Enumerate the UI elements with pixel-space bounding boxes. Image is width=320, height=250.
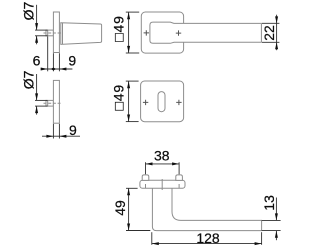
extension line 49 top	[126, 187, 138, 189]
dimension line 49 vertical	[128, 81, 130, 121]
extension line 9 left	[52, 124, 54, 139]
cross mark spindle	[176, 30, 181, 35]
svg-text:13: 13	[261, 195, 277, 211]
extension line 49 top	[126, 80, 139, 82]
arrow 13 down	[275, 213, 278, 220]
extension line 49 top	[126, 11, 139, 13]
keyhole slot	[158, 92, 165, 112]
wire dashed centerline of spindle	[44, 32, 62, 34]
rose plate top view	[140, 180, 185, 188]
arrow 22 down	[275, 16, 278, 23]
extension line 38 right	[178, 162, 180, 174]
right screw hole tick	[178, 184, 180, 188]
square rose front	[141, 12, 183, 53]
screw head/shaft boundary	[47, 30, 49, 36]
extension line Ø7 bottom	[35, 35, 48, 37]
dimension line 13 lower	[275, 231, 277, 241]
extension line Ø7 top	[35, 29, 48, 31]
extension line 6/9 middle	[52, 53, 54, 71]
rose plate side view	[53, 12, 59, 53]
arrow 9 pointing left	[59, 135, 66, 138]
svg-text:□49: □49	[110, 15, 126, 41]
arrow Ø7 up	[35, 36, 38, 43]
dimension line 128	[152, 243, 262, 245]
screw head side view	[46, 100, 53, 106]
extension line 6 left	[47, 36, 49, 71]
extension line Ø7 top	[35, 99, 48, 101]
grip base inner edge	[62, 23, 64, 44]
extension line 49 bottom	[126, 52, 139, 54]
arrow Ø7 down	[35, 93, 38, 100]
dimension line Ø7 lower	[36, 106, 38, 115]
arrow 6 pointing right	[41, 68, 48, 71]
arrow Ø7 up	[35, 106, 38, 113]
dimension line 49 vertical	[128, 12, 130, 53]
extension line 9 right	[58, 53, 60, 71]
arrow 38 left	[146, 162, 153, 165]
square key rose front	[141, 81, 184, 122]
arrow 13 up	[275, 231, 278, 238]
left screw hole tick	[145, 184, 147, 188]
arrow 49 up	[127, 12, 130, 19]
extension line 38 left	[145, 162, 147, 174]
centre tick on plate	[161, 179, 163, 190]
left screw top view	[142, 175, 149, 181]
arrow 49 up	[127, 188, 130, 195]
dimension line 9	[42, 135, 80, 137]
screw head/shaft boundary	[47, 100, 49, 106]
dimension line 6 and 9	[41, 68, 73, 70]
arrow 9 pointing left	[59, 68, 66, 71]
dimension line 22 vertical	[276, 15, 278, 51]
extension line 22 top	[262, 22, 279, 24]
arrow 49 down	[127, 115, 130, 122]
arrow 22 up	[275, 42, 278, 49]
cross mark left screw hole	[143, 100, 148, 105]
dimension line Ø7 lower	[36, 36, 38, 45]
svg-text:9: 9	[69, 122, 77, 138]
arrow 49 down	[127, 46, 130, 53]
lever handle front (grip + bar)	[150, 22, 262, 43]
neck and bar top view	[152, 184, 261, 231]
arrow 49 down	[127, 224, 130, 231]
extension line 49 bottom	[126, 121, 139, 123]
svg-text:38: 38	[154, 148, 170, 164]
arrow 128 left	[152, 242, 159, 245]
cross mark right screw hole	[176, 100, 181, 105]
cross mark left screw hole	[144, 30, 149, 35]
extension line 9 right	[58, 124, 60, 139]
extension line 128 left	[151, 232, 153, 245]
dimension line Ø7 upper	[36, 5, 38, 30]
handle grip side profile	[61, 23, 102, 45]
arrow 38 right	[172, 162, 179, 165]
dimension line Ø7 upper	[36, 74, 38, 100]
extension line 13 bottom	[262, 230, 281, 232]
svg-text:9: 9	[68, 52, 76, 68]
dimension line 13 upper	[275, 198, 277, 221]
arrow 49 up	[127, 81, 130, 88]
svg-text:Ø7: Ø7	[20, 1, 36, 20]
right screw top view	[176, 175, 183, 181]
arrow 128 right	[255, 242, 262, 245]
dimension line 38	[146, 163, 180, 165]
svg-text:49: 49	[112, 200, 128, 216]
screw head side view	[46, 30, 53, 36]
diamond shared tip	[51, 68, 56, 71]
svg-text:6: 6	[33, 53, 41, 69]
svg-text:22: 22	[261, 25, 277, 41]
extension line 128 right	[261, 232, 263, 245]
dimension line 49 vertical	[128, 188, 130, 230]
extension line Ø7 bottom	[35, 105, 48, 107]
extension line 13 top	[262, 219, 281, 221]
arrow Ø7 down	[35, 23, 38, 30]
svg-text:Ø7: Ø7	[20, 70, 36, 89]
extension line 49 bottom	[126, 230, 150, 232]
extension line 22 bottom	[262, 41, 279, 43]
arrow 9 pointing right	[46, 135, 53, 138]
key rose plate side view	[53, 80, 59, 123]
wire dashed centerline of key	[44, 102, 61, 104]
svg-text:□49: □49	[110, 84, 126, 110]
